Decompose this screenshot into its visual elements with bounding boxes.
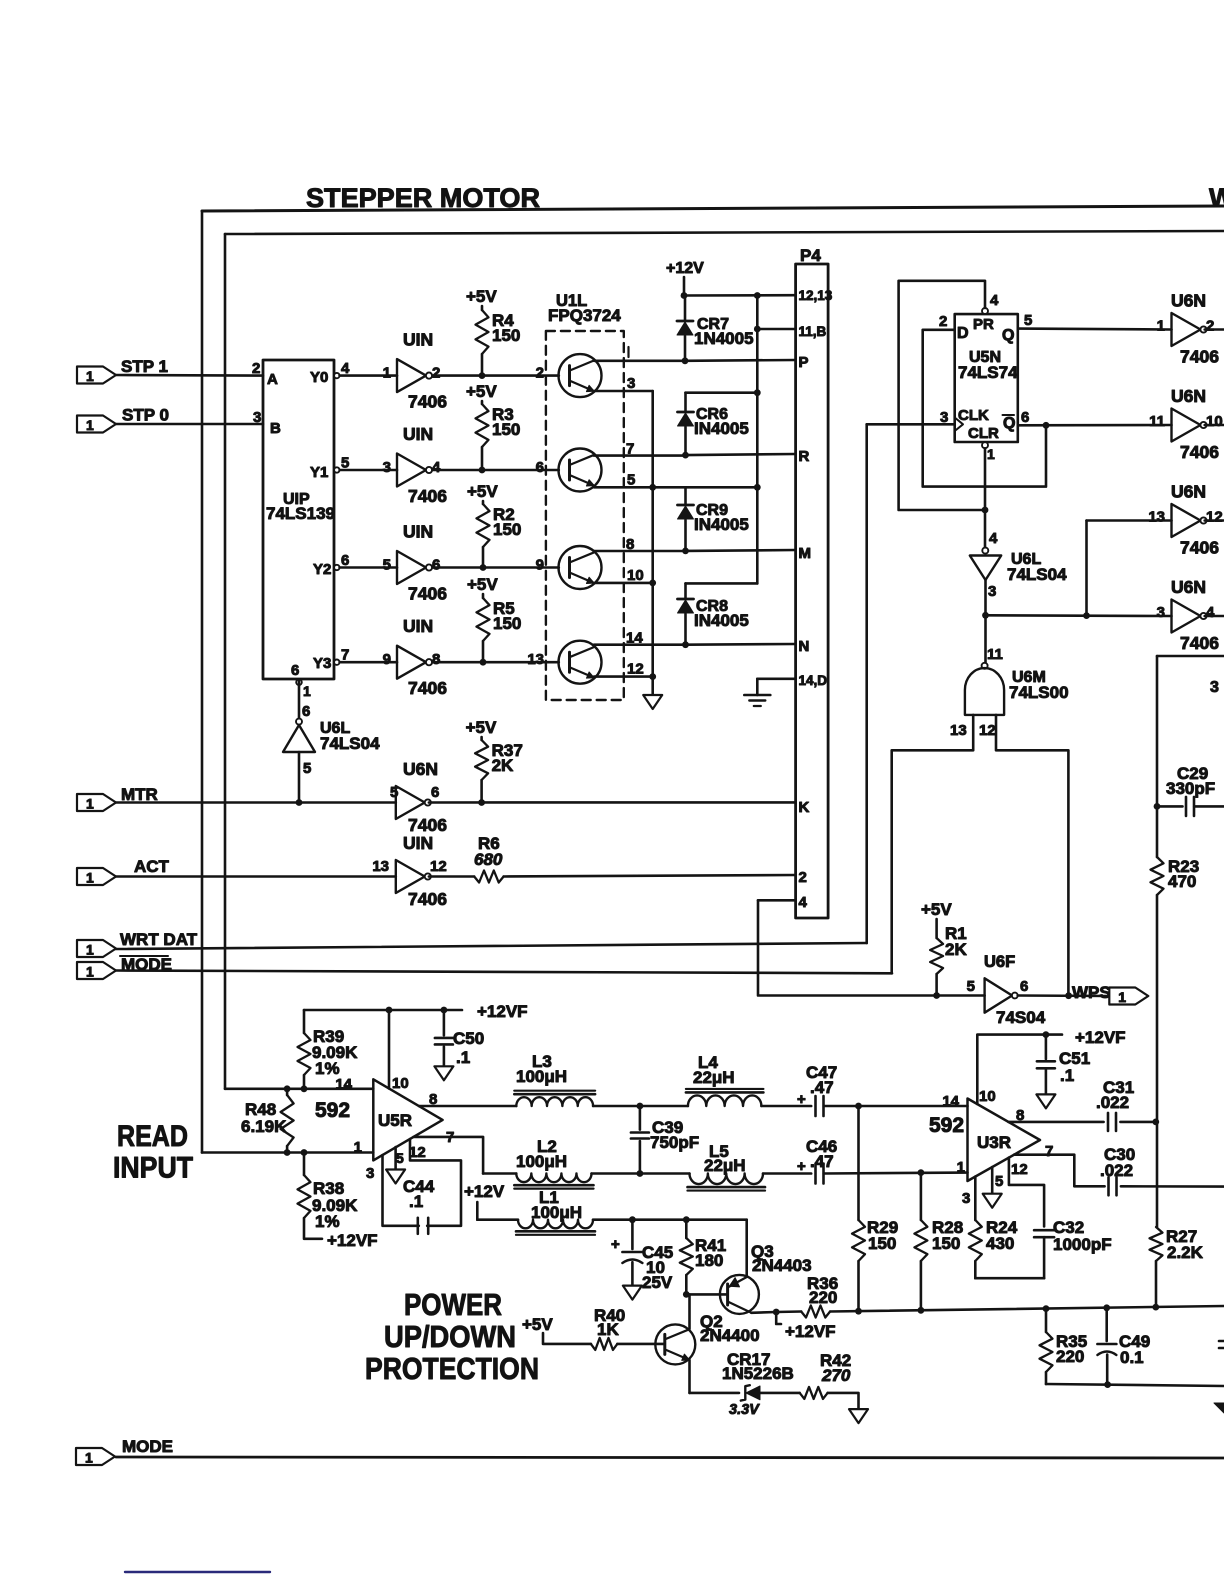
svg-text:3: 3 [253,409,261,426]
svg-text:5: 5 [1024,312,1032,329]
svg-text:0.1: 0.1 [1120,1348,1144,1367]
svg-text:IN4005: IN4005 [694,611,749,630]
svg-text:12: 12 [1011,1161,1028,1178]
svg-text:1: 1 [303,683,311,699]
svg-text:22μH: 22μH [704,1156,746,1175]
svg-text:WRITE: WRITE [1209,183,1224,213]
svg-text:U6N: U6N [1171,291,1206,311]
svg-text:P4: P4 [800,246,821,265]
svg-text:Q: Q [1002,327,1014,344]
svg-text:1: 1 [1118,989,1126,1005]
svg-text:150: 150 [493,614,521,633]
svg-text:.022: .022 [1100,1161,1133,1180]
svg-text:1: 1 [1157,318,1165,335]
svg-text:11,B: 11,B [799,324,827,339]
svg-text:680: 680 [474,850,503,869]
svg-text:+: + [611,1236,620,1253]
svg-text:4: 4 [799,894,808,911]
svg-text:8: 8 [429,1091,437,1108]
svg-text:C50: C50 [453,1029,484,1048]
svg-text:2: 2 [1206,318,1214,335]
svg-text:7406: 7406 [408,815,447,835]
svg-text:1%: 1% [315,1212,340,1231]
svg-text:430: 430 [986,1234,1014,1253]
svg-text:6: 6 [291,662,299,679]
svg-text:13: 13 [527,651,544,668]
svg-text:3: 3 [366,1165,374,1182]
svg-text:5: 5 [383,557,391,574]
svg-text:12: 12 [627,661,644,678]
svg-text:10: 10 [979,1088,996,1105]
svg-text:Y2: Y2 [313,561,331,578]
svg-text:U6N: U6N [1171,482,1206,502]
svg-text:+5V: +5V [466,718,497,737]
svg-text:4: 4 [990,292,999,309]
svg-text:12,13: 12,13 [799,288,833,303]
svg-text:UIN: UIN [403,330,433,350]
svg-text:2.2K: 2.2K [1167,1243,1204,1262]
svg-text:7: 7 [341,647,349,664]
svg-text:5: 5 [390,784,398,801]
svg-text:2: 2 [799,869,807,886]
svg-text:7406: 7406 [408,392,447,412]
svg-text:12: 12 [979,722,996,739]
svg-text:+5V: +5V [466,382,497,401]
svg-text:150: 150 [932,1234,960,1253]
svg-text:150: 150 [492,420,520,439]
svg-text:UIN: UIN [403,424,433,444]
svg-text:WRT DAT: WRT DAT [120,930,198,949]
svg-text:+5V: +5V [522,1315,553,1334]
svg-text:Q: Q [1003,415,1015,432]
svg-text:7406: 7406 [1180,347,1219,367]
svg-text:10: 10 [627,567,644,584]
svg-text:.47: .47 [810,1078,834,1097]
svg-text:2: 2 [252,360,260,377]
svg-text:2: 2 [939,313,947,330]
svg-text:7406: 7406 [408,889,447,909]
svg-text:1: 1 [86,417,94,433]
svg-text:6: 6 [341,552,349,569]
svg-text:.022: .022 [1096,1093,1129,1112]
svg-text:U6N: U6N [403,759,438,779]
svg-text:6: 6 [1021,409,1029,426]
svg-text:8: 8 [626,536,634,553]
svg-text:+12V: +12V [464,1182,505,1201]
svg-text:A: A [267,371,278,388]
svg-text:6: 6 [1020,978,1028,995]
svg-text:.1: .1 [1060,1066,1074,1085]
svg-text:12: 12 [430,858,447,875]
svg-text:592: 592 [315,1099,350,1122]
svg-text:CLK: CLK [958,407,989,424]
svg-text:5: 5 [341,455,349,472]
svg-text:100μH: 100μH [516,1067,567,1086]
svg-text:220: 220 [1056,1347,1084,1366]
svg-text:10: 10 [392,1075,409,1092]
svg-text:.1: .1 [409,1192,423,1211]
svg-text:5: 5 [303,760,311,777]
svg-text:+: + [797,1091,806,1108]
svg-text:592: 592 [929,1114,964,1137]
svg-text:UIN: UIN [403,616,433,636]
svg-text:74S04: 74S04 [996,1008,1046,1027]
svg-text:UIN: UIN [403,833,433,853]
svg-text:ACT: ACT [134,857,170,876]
svg-text:220: 220 [809,1288,837,1307]
svg-text:+12VF: +12VF [785,1322,836,1341]
svg-text:+12V: +12V [666,260,704,277]
svg-text:3: 3 [1210,679,1219,696]
svg-text:2: 2 [536,365,544,382]
svg-text:Y1: Y1 [310,464,328,481]
svg-text:M: M [799,545,812,562]
svg-text:14: 14 [942,1093,959,1110]
svg-text:6: 6 [431,784,439,801]
svg-text:U6N: U6N [1171,386,1206,406]
svg-text:12: 12 [409,1144,426,1161]
svg-text:4: 4 [341,360,350,377]
svg-text:25V: 25V [642,1273,673,1292]
svg-text:5: 5 [995,1173,1003,1190]
svg-text:5: 5 [967,978,975,995]
svg-text:74LS04: 74LS04 [1007,565,1067,584]
svg-text:3: 3 [627,375,635,392]
svg-text:100μH: 100μH [516,1152,567,1171]
svg-text:6: 6 [302,703,310,720]
svg-text:CLR: CLR [968,425,999,442]
svg-text:1: 1 [86,870,94,886]
svg-text:WPS: WPS [1072,983,1111,1002]
svg-text:3: 3 [962,1190,970,1207]
svg-text:POWER: POWER [404,1287,502,1322]
svg-text:U3R: U3R [977,1133,1011,1152]
svg-text:2: 2 [432,365,440,382]
svg-text:6.19K: 6.19K [241,1117,287,1136]
svg-text:3.3V: 3.3V [729,1402,760,1418]
svg-text:Y0: Y0 [310,369,328,386]
svg-text:+5V: +5V [921,900,952,919]
svg-text:180: 180 [695,1251,723,1270]
svg-text:+: + [797,1158,806,1175]
svg-text:+12VF: +12VF [327,1231,378,1250]
svg-text:8: 8 [432,651,440,668]
svg-text:MTR: MTR [121,785,158,804]
svg-text:1: 1 [987,446,995,462]
svg-text:74LS00: 74LS00 [1009,683,1069,702]
svg-text:9: 9 [536,557,544,574]
svg-text:K: K [799,799,810,816]
svg-text:PROTECTION: PROTECTION [365,1351,539,1386]
svg-text:U6N: U6N [1171,577,1206,597]
svg-text:330pF: 330pF [1166,779,1215,798]
svg-text:2K: 2K [492,756,514,775]
svg-text:14,D: 14,D [799,673,828,688]
svg-text:1N4005: 1N4005 [694,329,754,348]
svg-text:150: 150 [492,326,520,345]
svg-text:3: 3 [383,459,391,476]
svg-text:74LS04: 74LS04 [320,734,380,753]
svg-text:7: 7 [1045,1143,1053,1160]
svg-text:14: 14 [335,1076,352,1093]
svg-text:+5V: +5V [467,575,498,594]
svg-text:13: 13 [372,858,389,875]
svg-text:1N5226B: 1N5226B [722,1364,794,1383]
svg-text:5: 5 [396,1150,404,1166]
svg-text:1: 1 [383,365,391,382]
svg-text:470: 470 [1168,872,1196,891]
svg-text:14: 14 [626,630,643,647]
svg-text:1: 1 [86,796,94,812]
svg-text:Y3: Y3 [313,655,331,672]
svg-text:READ: READ [117,1120,188,1153]
svg-text:750pF: 750pF [650,1133,699,1152]
svg-text:7406: 7406 [1180,633,1219,653]
svg-text:1: 1 [86,368,94,384]
svg-text:7406: 7406 [1180,538,1219,558]
svg-text:STP 1: STP 1 [121,357,168,376]
svg-text:7406: 7406 [408,678,447,698]
svg-text:+12VF: +12VF [1075,1028,1126,1047]
svg-text:D: D [957,325,969,342]
svg-text:7406: 7406 [408,584,447,604]
svg-text:74LS74: 74LS74 [958,363,1018,382]
svg-text:2N4400: 2N4400 [700,1326,760,1345]
svg-text:100μH: 100μH [531,1203,582,1222]
svg-text:1K: 1K [597,1320,619,1339]
svg-text:IN4005: IN4005 [694,515,749,534]
svg-text:150: 150 [868,1234,896,1253]
svg-text:7406: 7406 [1180,442,1219,462]
svg-text:1: 1 [85,1450,93,1466]
svg-text:P: P [799,354,809,371]
svg-text:+12VF: +12VF [477,1002,528,1021]
svg-text:6: 6 [432,557,440,574]
svg-text:STP 0: STP 0 [122,406,169,425]
svg-text:6: 6 [536,459,544,476]
svg-text:+5V: +5V [467,482,498,501]
svg-text:U6F: U6F [984,953,1015,971]
svg-text:74LS139: 74LS139 [266,504,335,523]
svg-text:10: 10 [1206,413,1223,430]
svg-text:PR: PR [973,316,994,333]
svg-text:1000pF: 1000pF [1053,1235,1112,1254]
svg-text:UIN: UIN [403,522,433,542]
svg-text:FPQ3724: FPQ3724 [548,306,621,325]
svg-text:IN4005: IN4005 [694,419,749,438]
svg-text:.47: .47 [810,1152,834,1171]
svg-text:13: 13 [950,722,967,739]
svg-text:4: 4 [432,459,441,476]
svg-text:3: 3 [1157,604,1165,621]
svg-text:4: 4 [1206,604,1215,621]
svg-text:STEPPER MOTOR: STEPPER MOTOR [306,183,540,213]
svg-text:150: 150 [493,520,521,539]
svg-text:7: 7 [626,441,634,458]
svg-text:2N4403: 2N4403 [752,1256,812,1275]
svg-text:R: R [799,448,810,465]
svg-text:INPUT: INPUT [113,1152,193,1185]
svg-text:B: B [270,420,281,437]
svg-text:1: 1 [354,1139,362,1156]
svg-text:2K: 2K [945,940,967,959]
svg-text:N: N [799,638,810,655]
svg-text:11: 11 [1149,413,1165,430]
svg-text:+5V: +5V [466,287,497,306]
svg-text:11: 11 [987,646,1003,663]
svg-text:9: 9 [383,651,391,668]
svg-text:U5R: U5R [378,1111,412,1130]
svg-text:1: 1 [86,964,94,980]
svg-text:MODE: MODE [122,1437,173,1456]
svg-text:1: 1 [86,942,94,958]
svg-text:UP/DOWN: UP/DOWN [384,1319,516,1354]
svg-text:.1: .1 [456,1048,470,1067]
svg-text:5: 5 [627,471,635,488]
svg-text:4: 4 [989,530,998,547]
svg-text:12: 12 [1206,509,1223,526]
svg-text:13: 13 [1148,509,1165,526]
svg-text:22μH: 22μH [693,1068,735,1087]
svg-text:270: 270 [821,1366,851,1385]
svg-text:7406: 7406 [408,486,447,506]
svg-text:3: 3 [988,583,996,600]
